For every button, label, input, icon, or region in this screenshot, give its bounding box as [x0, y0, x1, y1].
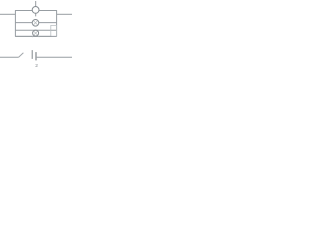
svg-text:2: 2 [35, 63, 38, 69]
